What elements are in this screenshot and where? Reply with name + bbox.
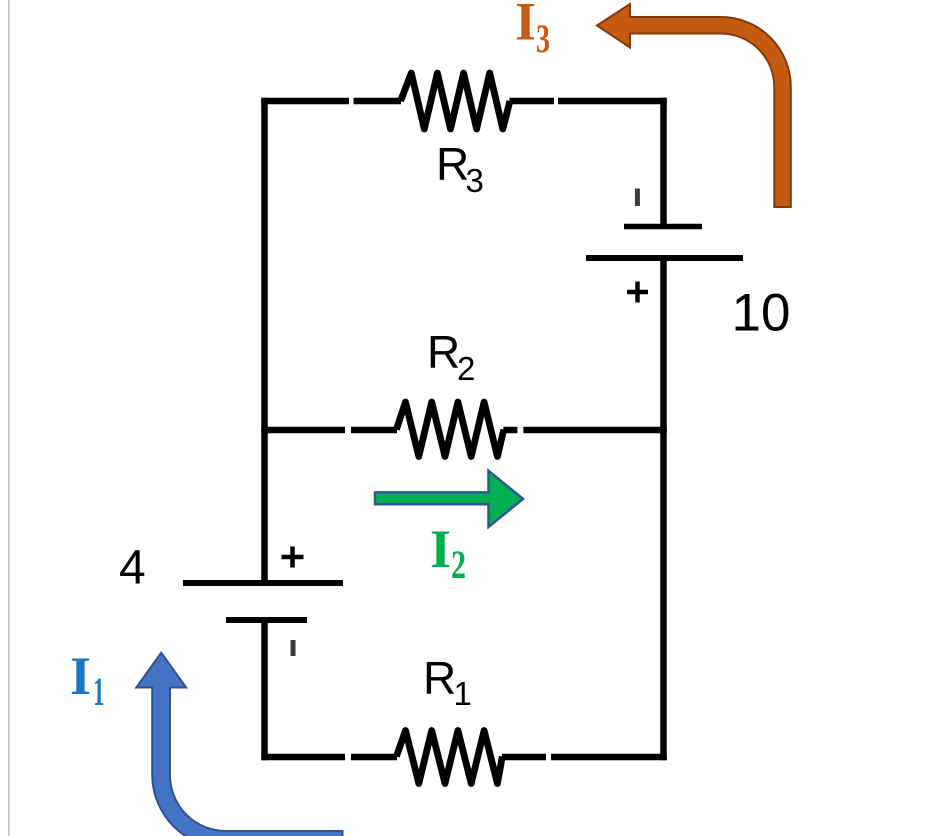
wire bottom lead to R1	[351, 754, 397, 761]
battery V1 plus sign	[282, 547, 304, 568]
wire middle-right segment	[523, 427, 666, 434]
svg-text:2: 2	[457, 350, 475, 387]
svg-text:4: 4	[119, 542, 146, 595]
current arrow I3 (orange bent arrow)	[597, 4, 791, 207]
wire R3 right lead	[510, 98, 555, 105]
svg-text:3: 3	[536, 16, 550, 61]
current arrow I1 (blue bent arrow)	[136, 653, 342, 836]
wire middle-left segment	[261, 427, 345, 434]
wire top lead to R3	[354, 98, 402, 105]
wire top-right horizontal segment	[558, 98, 667, 105]
left page edge line	[8, 0, 10, 836]
battery V1 (4V) long plate (positive)	[183, 580, 343, 586]
svg-text:R: R	[427, 326, 460, 378]
battery V1 short plate (negative)	[226, 617, 307, 623]
svg-text:I: I	[430, 519, 451, 579]
battery V2 plus sign	[627, 282, 648, 303]
svg-text:I: I	[515, 0, 536, 52]
wire top-left horizontal segment	[261, 98, 349, 105]
resistor R2	[396, 402, 503, 457]
wire left vertical (top corner to 4V battery)	[261, 98, 268, 583]
current arrow I2 (green)	[375, 471, 523, 527]
svg-text:3: 3	[466, 162, 484, 199]
svg-text:1: 1	[454, 675, 472, 712]
svg-text:R: R	[423, 652, 456, 704]
resistor R3	[401, 73, 510, 129]
battery V2 short plate (negative)	[624, 224, 702, 230]
battery V2 (10V) minus tick	[635, 189, 640, 207]
wire middle lead to R2	[351, 427, 397, 434]
resistor R1	[396, 731, 502, 784]
battery V1 minus tick	[291, 640, 296, 656]
svg-text:10: 10	[732, 284, 791, 343]
wire R2 right lead	[503, 427, 517, 434]
wire bottom-left segment	[261, 754, 345, 761]
svg-text:2: 2	[451, 542, 466, 587]
svg-text:1: 1	[93, 669, 105, 714]
wire right vertical (10V battery to bottom corner)	[660, 258, 667, 760]
wire R1 right lead	[502, 754, 546, 761]
wire right vertical (top corner to 10V battery)	[660, 98, 667, 224]
wire left vertical (4V battery to bottom corner)	[261, 623, 268, 760]
svg-text:I: I	[70, 646, 91, 706]
svg-text:R: R	[436, 138, 469, 190]
wire bottom-right segment	[551, 754, 667, 761]
battery V2 long plate (positive)	[586, 255, 743, 261]
